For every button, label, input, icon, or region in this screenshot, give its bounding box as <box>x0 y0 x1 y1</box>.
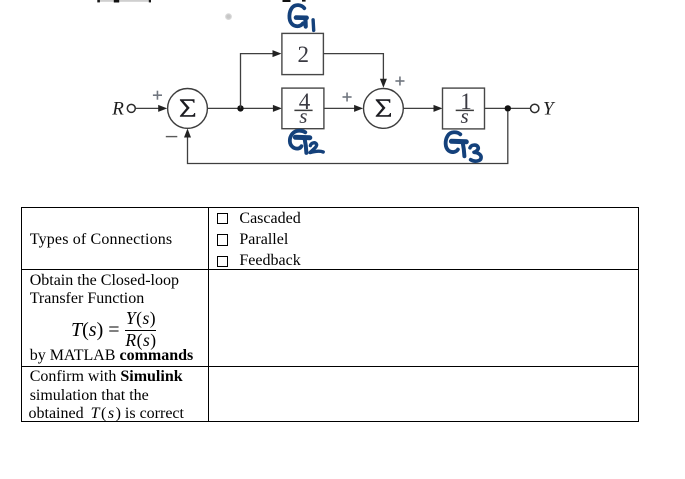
equation T(s) = Y(s)/R(s) <box>71 320 120 340</box>
plus sign at S1 left input <box>153 91 162 100</box>
checkbox Parallel <box>217 234 229 245</box>
minus sign at S1 feedback input <box>166 136 178 138</box>
wire S2 to block G3 <box>403 105 442 112</box>
summing junction S2 <box>364 89 404 129</box>
cropped text artifact above label G1 <box>283 0 306 2</box>
gray smudge mark <box>225 13 232 20</box>
table column divider <box>208 207 209 421</box>
wire G1 to summer S2 top <box>323 54 387 88</box>
svg-text:Y: Y <box>543 99 556 120</box>
handwritten label G2 <box>290 131 323 153</box>
wire node A up to block G1 <box>241 50 282 108</box>
wire S1 to block G2 <box>207 105 282 112</box>
handwritten label G3 <box>446 132 481 161</box>
cell: Obtain the Closed-loop Transfer Function <box>30 273 179 289</box>
cell: Types of Connections <box>30 232 173 248</box>
wire R to summer S1 <box>136 105 168 112</box>
block diagram <box>0 0 685 200</box>
output terminal Y <box>531 104 539 112</box>
cell: Confirm with Simulink <box>30 369 183 385</box>
node B output branch point <box>505 105 511 111</box>
table row divider 1 <box>21 269 638 270</box>
checkbox Feedback <box>217 256 229 267</box>
table row divider 2 <box>21 366 638 367</box>
svg-text:s: s <box>461 104 469 128</box>
plus sign at S2 top input <box>395 77 404 86</box>
input terminal R <box>127 104 135 112</box>
cropped text artifact top-left <box>97 0 151 3</box>
handwritten label G1 <box>289 5 313 30</box>
block G2 value 4/s <box>282 88 324 129</box>
node A branch point <box>237 105 243 111</box>
table outer border <box>21 207 639 422</box>
wire G2 to summer S2 <box>324 105 363 112</box>
svg-text:2: 2 <box>298 42 310 67</box>
summing junction S1 <box>168 89 208 129</box>
plus sign at S2 left input <box>343 93 352 102</box>
feedback wire node B to S1 <box>184 112 508 164</box>
block G3 value 1/s <box>443 88 485 129</box>
svg-text:R: R <box>111 99 124 120</box>
wire G3 to output terminal Y <box>485 107 531 109</box>
checkbox Cascaded <box>217 213 229 224</box>
block G1 value 2 <box>282 33 324 74</box>
svg-text:s: s <box>299 104 307 128</box>
